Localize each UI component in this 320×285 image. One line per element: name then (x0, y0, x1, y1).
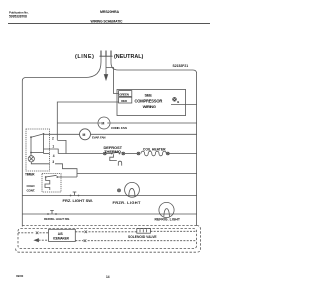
svg-text:COND. FAN: COND. FAN (111, 126, 128, 130)
svg-text:ICEMAKER: ICEMAKER (53, 237, 70, 241)
inline connector (103, 152, 106, 155)
wire compressor to right rail (171, 103, 197, 105)
defrost heater line (58, 153, 103, 155)
svg-text:A/S: A/S (58, 232, 63, 236)
inline connector on freezer light wire (118, 189, 121, 192)
connector B symbol (172, 97, 179, 104)
condenser fan motor (98, 117, 110, 129)
outer dashed boundary (16, 226, 201, 253)
inline connector (166, 152, 169, 155)
svg-text:GREEN: GREEN (119, 93, 129, 97)
inline connector (122, 152, 125, 155)
svg-text:5995338708: 5995338708 (9, 14, 27, 18)
defrost timer box (26, 129, 50, 171)
svg-text:M: M (83, 133, 86, 137)
label COLD CONT. (27, 184, 36, 193)
text SEE COMPRESSOR WIRING (135, 92, 163, 108)
wire timer terminal 3 run (55, 164, 77, 177)
terminal box GREEN (119, 91, 132, 97)
svg-text:1: 1 (52, 145, 54, 149)
svg-text:REFRIG. LIGHT SW.: REFRIG. LIGHT SW. (44, 217, 70, 221)
header publication text (9, 10, 123, 23)
header rule (8, 23, 210, 25)
power plug prongs (100, 51, 113, 57)
svg-text:4: 4 (53, 154, 55, 158)
wire LINE from plug to left rail (22, 57, 101, 227)
svg-text:SOLENOID VALVE: SOLENOID VALVE (128, 235, 157, 239)
timer contact dot (30, 136, 32, 138)
svg-text:SEE: SEE (145, 92, 153, 97)
timer switch blade (31, 134, 44, 137)
svg-text:RED: RED (121, 99, 128, 103)
svg-text:COMPRESSOR: COMPRESSOR (135, 98, 163, 103)
wire heater to right rail (169, 153, 196, 155)
dashed wire solenoid to right rail (150, 230, 196, 232)
svg-text:14: 14 (106, 275, 110, 279)
wire jog to defrost line (57, 140, 66, 153)
svg-text:3: 3 (52, 160, 54, 164)
wire evap fan to right rail (91, 133, 197, 135)
evaporator fan motor (80, 129, 91, 140)
connector loop mark (118, 161, 121, 165)
timer internal wires (30, 137, 32, 152)
svg-text:M: M (101, 122, 104, 126)
svg-text:CONT.: CONT. (27, 189, 36, 193)
wire NEUTRAL from plug to right rail (111, 57, 197, 226)
svg-text:THERMO.: THERMO. (104, 149, 122, 154)
label DEFROST THERMO. (104, 145, 123, 154)
svg-text:WIRING: WIRING (143, 104, 156, 109)
footer page info (16, 274, 110, 279)
svg-text:2: 2 (52, 136, 54, 140)
dashed wire lower with X connector (75, 240, 83, 242)
svg-text:WIRING SCHEMATIC: WIRING SCHEMATIC (91, 19, 124, 23)
timer motor (28, 156, 34, 162)
cold control box (42, 174, 61, 193)
defrost coil heater element (141, 151, 166, 156)
timer motor to terminal 3 (31, 162, 49, 164)
cold control switch contacts (45, 176, 47, 178)
wire timer terminal 2 to evap fan (50, 133, 80, 135)
solenoid valve coil (137, 228, 151, 233)
compressor box (117, 90, 186, 116)
dashed wire icemaker to solenoid with X connector (75, 231, 84, 233)
defrost thermostat (111, 153, 113, 155)
svg-text:MRS20HRA: MRS20HRA (100, 10, 119, 14)
svg-text:(NEUTRAL): (NEUTRAL) (114, 54, 144, 60)
refrigerator light lamp (159, 202, 174, 217)
refrigerator light wire (22, 213, 196, 215)
icemaker dashed enclosure (18, 229, 197, 249)
inline connector (137, 152, 140, 155)
svg-text:EVAP. FAN: EVAP. FAN (92, 136, 105, 140)
wire cold control out (57, 176, 77, 178)
freezer light wire (22, 195, 196, 197)
wire red to left vertical rail (57, 102, 118, 140)
terminal box RED (119, 97, 132, 103)
svg-text:(LINE): (LINE) (75, 54, 94, 60)
arrow connector wire (39, 239, 49, 241)
svg-text:S2152F21: S2152F21 (173, 64, 189, 68)
svg-text:COIL HEATER: COIL HEATER (143, 148, 166, 152)
cold control sensing element (45, 177, 50, 190)
svg-text:FRZR. LIGHT: FRZR. LIGHT (113, 200, 141, 205)
freezer light lamp (125, 182, 140, 197)
wire green branch to compressor box (106, 68, 119, 94)
svg-text:TIMER: TIMER (25, 172, 35, 176)
refrigerator light switch (47, 211, 57, 215)
dashed wire left with X connector (18, 232, 35, 234)
svg-text:B: B (177, 100, 179, 104)
svg-text:REFRIG. LIGHT: REFRIG. LIGHT (155, 218, 181, 222)
svg-text:FRZ. LIGHT SW.: FRZ. LIGHT SW. (63, 198, 93, 203)
svg-text:COLD: COLD (27, 184, 36, 188)
wire to cond fan (57, 122, 98, 124)
ground prong wire with arrow (105, 57, 107, 76)
freezer light switch (70, 192, 80, 196)
icemaker box (49, 229, 76, 241)
wire cond fan to right rail (110, 122, 197, 124)
terminal numbers (51, 136, 56, 165)
dashed cabinet line (22, 225, 196, 227)
svg-text:09/00: 09/00 (16, 274, 24, 278)
